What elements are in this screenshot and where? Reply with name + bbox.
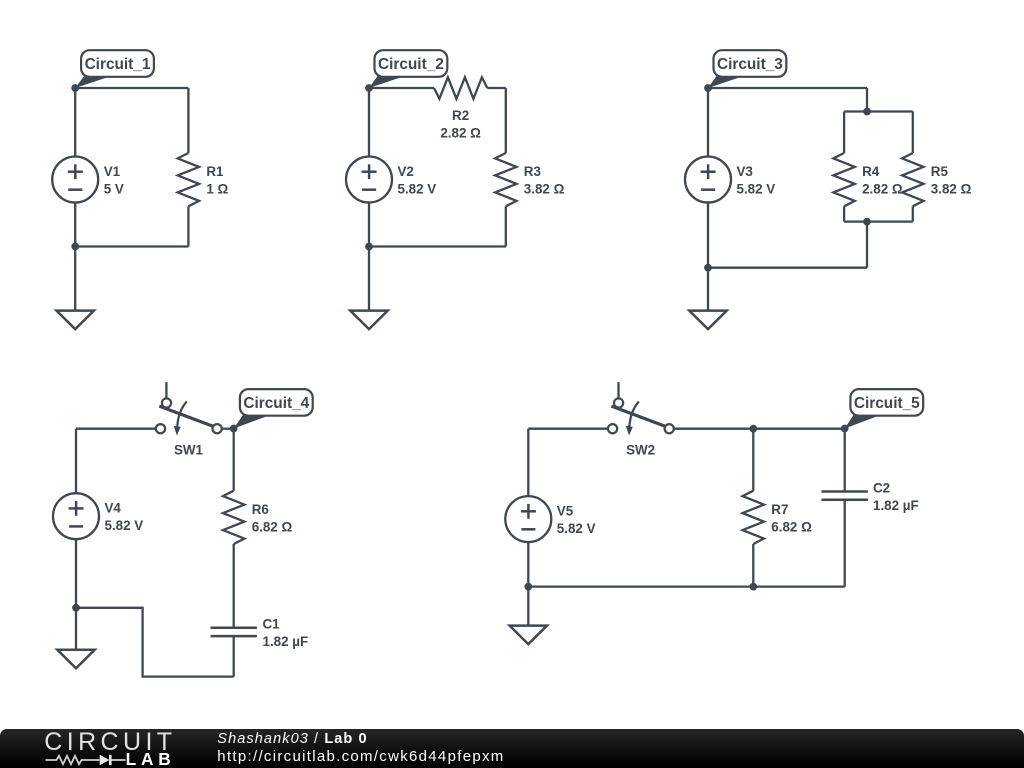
voltage source V2 (346, 157, 392, 203)
node bottom C2 (365, 243, 373, 251)
svg-text:R7: R7 (771, 502, 788, 517)
wire top C1 (75, 87, 188, 89)
svg-text:1.82 µF: 1.82 µF (263, 634, 309, 649)
ground C2 (350, 311, 387, 330)
wire bottom C2 (369, 245, 506, 247)
svg-text:SW2: SW2 (626, 443, 655, 458)
node B (Circuit_4) (230, 425, 238, 433)
wire left upper C3 (707, 88, 709, 157)
svg-text:5.82 V: 5.82 V (105, 518, 144, 533)
voltage source V4 (53, 493, 99, 539)
svg-text:V4: V4 (105, 501, 122, 516)
svg-text:V2: V2 (398, 164, 414, 179)
wire left lower C4 (75, 539, 77, 608)
ground C3 (689, 311, 726, 330)
wire ground lead C4 (75, 608, 77, 650)
wire left upper C2 (368, 88, 370, 157)
wire R5 lower lead (912, 206, 914, 221)
svg-text:Circuit_5: Circuit_5 (854, 395, 920, 412)
svg-text:R2: R2 (452, 108, 469, 123)
svg-text:6.82 Ω: 6.82 Ω (771, 519, 812, 534)
ground C1 (57, 311, 94, 330)
svg-text:6.82 Ω: 6.82 Ω (252, 519, 293, 534)
wire ground lead C2 (368, 247, 370, 311)
wire C1 lower lead (233, 636, 235, 677)
wire left down C5 (527, 429, 529, 496)
wire SW2 left to corner (528, 428, 608, 430)
svg-text:C1: C1 (263, 617, 281, 632)
node bottom C4 (72, 604, 80, 612)
switch SW2 (617, 382, 619, 398)
wire top-right C2 (487, 87, 506, 89)
svg-text:R5: R5 (931, 164, 949, 179)
wire right upper C1 (187, 88, 189, 153)
voltage source V3 (685, 157, 731, 203)
wire top C3 (708, 87, 867, 89)
svg-text:5.82 V: 5.82 V (557, 521, 596, 536)
wire SW2 right to C2 branch (674, 428, 845, 430)
wire left lower C5 (527, 542, 529, 587)
svg-text:5 V: 5 V (104, 181, 124, 196)
wire left lower C3 (707, 203, 709, 268)
svg-text:3.82 Ω: 3.82 Ω (524, 182, 565, 197)
wire bottom rail C5 (528, 585, 844, 587)
svg-text:Circuit_2: Circuit_2 (378, 56, 444, 73)
node label Circuit_3 (708, 76, 745, 88)
wire bottom return C4 (76, 608, 234, 677)
logo wordmark CIRCUIT (44, 730, 176, 755)
wire SW1 left to corner (76, 428, 156, 430)
wire feed down C3 (866, 88, 868, 112)
ground C4 (57, 650, 94, 669)
svg-text:V3: V3 (737, 164, 753, 179)
resistor R4 (833, 153, 854, 206)
wire bottom C3 (708, 267, 867, 269)
svg-text:V5: V5 (557, 504, 574, 519)
node R7 bottom C5 (749, 583, 757, 591)
capacitor C1 (211, 627, 257, 630)
svg-text:Circuit_3: Circuit_3 (717, 56, 783, 73)
wire bottom C1 (75, 245, 188, 247)
svg-text:R1: R1 (206, 164, 224, 179)
resistor R6 (223, 491, 244, 544)
svg-text:3.82 Ω: 3.82 Ω (931, 182, 972, 197)
node A (Circuit_3 top) (704, 84, 712, 92)
wire R5 upper lead (912, 112, 914, 154)
svg-text:5.82 V: 5.82 V (398, 181, 437, 196)
wire down from parallel C3 (866, 222, 868, 268)
wire right lower C2 (505, 206, 507, 246)
wire C2 lower lead (844, 500, 846, 587)
resistor R3 (495, 153, 516, 206)
svg-text:V1: V1 (104, 164, 121, 179)
voltage source V5 (505, 496, 551, 542)
wire top-left C2 (369, 87, 434, 89)
wire ground lead C1 (74, 247, 76, 311)
logo resistor-diode glyph (45, 752, 127, 768)
voltage source V1 (52, 157, 98, 203)
svg-text:C2: C2 (873, 480, 890, 495)
wire right upper C2 (505, 88, 507, 153)
node bottom C1 (71, 243, 79, 251)
wire left upper C1 (74, 88, 76, 157)
node bottom-left C5 (524, 583, 532, 591)
node label Circuit_1 (75, 76, 112, 88)
node parallel bottom C3 (863, 218, 871, 226)
wire parallel top rail C3 (844, 110, 913, 112)
wire R7 upper lead (752, 429, 754, 491)
node parallel top C3 (863, 108, 871, 116)
node label Circuit_5 (845, 415, 882, 429)
resistor R5 (902, 153, 923, 206)
node label Circuit_2 (369, 76, 406, 88)
resistor R7 (743, 491, 764, 544)
svg-text:R6: R6 (252, 502, 269, 517)
node bottom C3 (704, 264, 712, 272)
node A (Circuit_1 top) (71, 84, 79, 92)
svg-text:R4: R4 (862, 164, 880, 179)
wire R7 lower lead (752, 544, 754, 587)
svg-text:5.82 V: 5.82 V (737, 181, 776, 196)
wire R6 to C1 (233, 544, 235, 628)
wire R6 upper lead (233, 429, 235, 491)
wire C2 upper lead (844, 429, 846, 492)
node label Circuit_4 (234, 415, 271, 429)
resistor R2 (434, 77, 487, 98)
wire ground lead C3 (707, 268, 709, 311)
svg-text:Circuit_4: Circuit_4 (243, 395, 309, 412)
wire parallel bottom rail C3 (844, 220, 913, 222)
wire left lower C1 (74, 203, 76, 247)
footer url text (217, 749, 504, 764)
svg-text:R3: R3 (524, 164, 541, 179)
wire left lower C2 (368, 203, 370, 247)
ground C5 (510, 626, 547, 645)
svg-text:2.82 Ω: 2.82 Ω (862, 182, 903, 197)
node C (Circuit_5) (841, 425, 849, 433)
footer title text (217, 732, 367, 747)
wire SW1 right to node (222, 428, 234, 430)
switch SW1 (165, 382, 167, 398)
wire R4 lower lead (843, 206, 845, 221)
logo wordmark LAB (126, 751, 176, 768)
node R7 top C5 (749, 425, 757, 433)
svg-text:SW1: SW1 (174, 443, 204, 458)
wire ground lead C5 (527, 587, 529, 626)
wire left down C4 (75, 429, 77, 494)
resistor R1 (178, 153, 199, 206)
svg-text:1 Ω: 1 Ω (206, 182, 228, 197)
wire R4 upper lead (843, 112, 845, 154)
node A (Circuit_2 top) (365, 84, 373, 92)
wire right lower C1 (187, 206, 189, 246)
capacitor C2 (822, 490, 868, 493)
svg-text:2.82 Ω: 2.82 Ω (440, 125, 481, 140)
svg-text:Circuit_1: Circuit_1 (85, 56, 151, 73)
svg-text:1.82 µF: 1.82 µF (873, 498, 919, 513)
